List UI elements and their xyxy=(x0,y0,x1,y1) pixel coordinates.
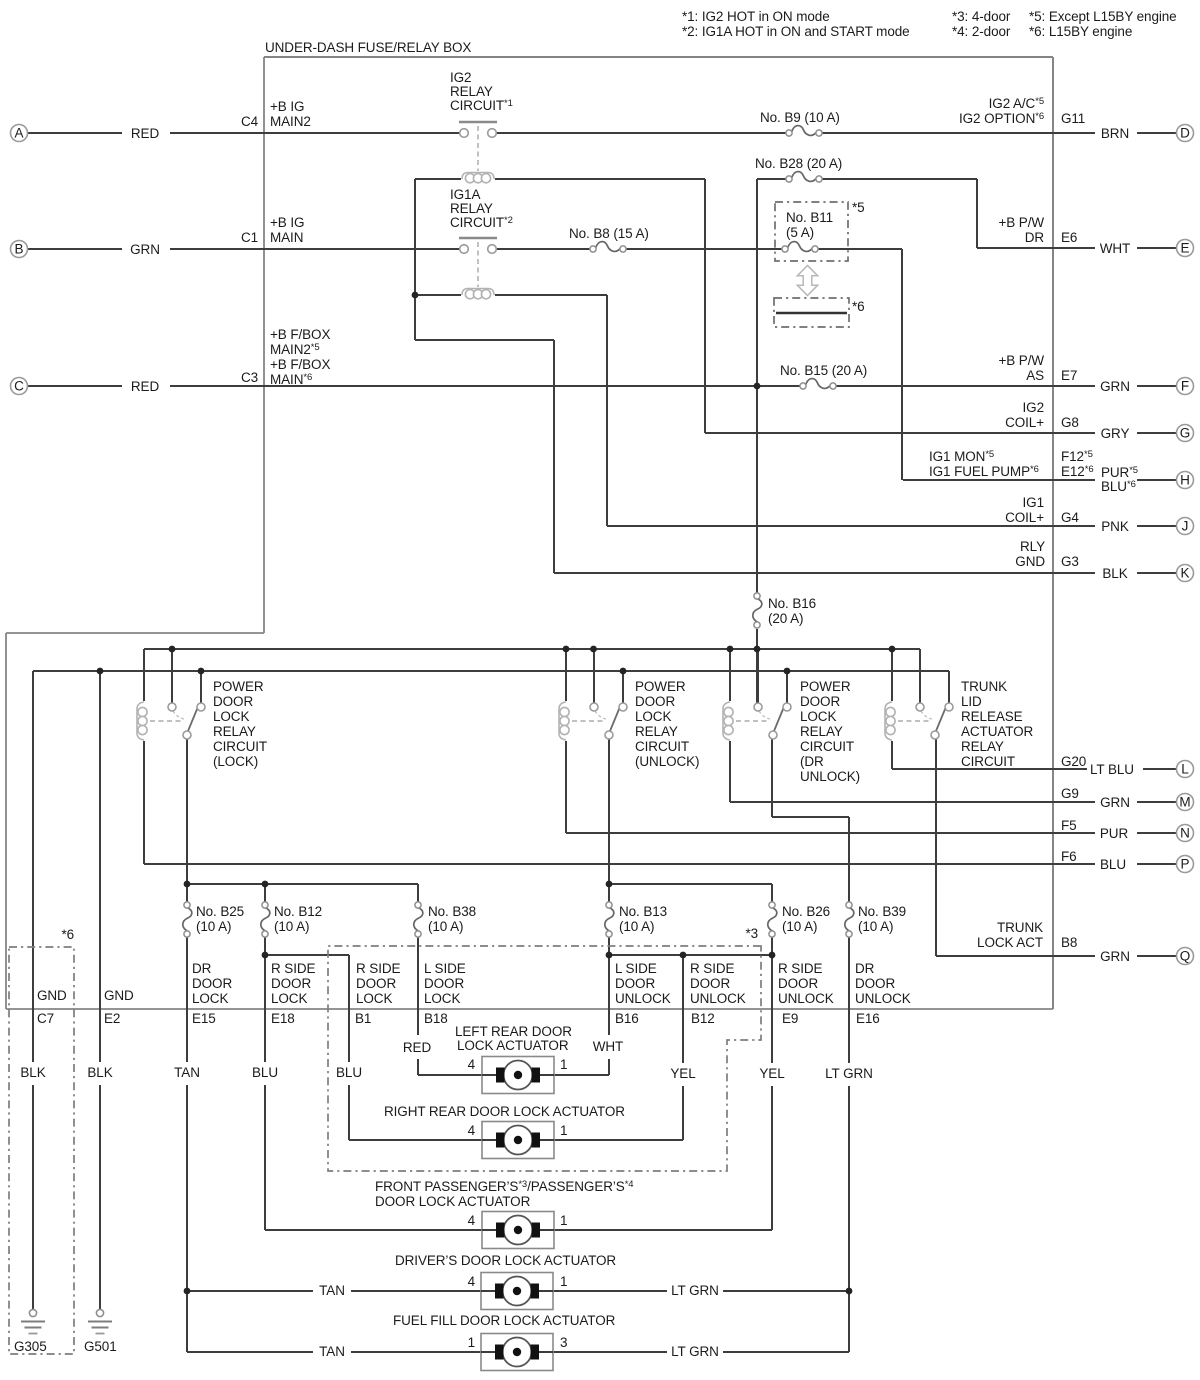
svg-text:DOOR: DOOR xyxy=(778,976,818,991)
svg-text:LT GRN: LT GRN xyxy=(671,1283,719,1298)
svg-text:LOCK: LOCK xyxy=(424,991,460,1006)
svg-text:UNLOCK: UNLOCK xyxy=(690,991,746,1006)
svg-text:LOCK: LOCK xyxy=(356,991,392,1006)
svg-text:1: 1 xyxy=(560,1057,567,1072)
svg-text:DOOR: DOOR xyxy=(271,976,311,991)
svg-text:+B P/W: +B P/W xyxy=(998,353,1044,368)
svg-text:LID: LID xyxy=(961,694,982,709)
svg-text:A: A xyxy=(15,126,24,141)
svg-text:(20 A): (20 A) xyxy=(768,611,803,626)
svg-text:LEFT REAR DOOR: LEFT REAR DOOR xyxy=(455,1024,572,1039)
svg-text:J: J xyxy=(1182,519,1189,534)
svg-text:E18: E18 xyxy=(271,1011,295,1026)
svg-text:E7: E7 xyxy=(1061,368,1077,383)
svg-text:UNLOCK: UNLOCK xyxy=(615,991,671,1006)
svg-text:*5: *5 xyxy=(852,200,865,215)
svg-text:C3: C3 xyxy=(241,370,258,385)
svg-text:ACTUATOR: ACTUATOR xyxy=(961,724,1034,739)
svg-text:RELAY: RELAY xyxy=(450,201,493,216)
svg-text:DR: DR xyxy=(1025,230,1045,245)
svg-text:N: N xyxy=(1180,826,1190,841)
svg-text:IG1 FUEL PUMP*6: IG1 FUEL PUMP*6 xyxy=(929,464,1039,479)
svg-text:No. B9 (10 A): No. B9 (10 A) xyxy=(760,110,840,125)
svg-text:IG1 MON*5: IG1 MON*5 xyxy=(929,449,994,464)
svg-text:CIRCUIT: CIRCUIT xyxy=(213,739,267,754)
svg-text:F: F xyxy=(1181,379,1189,394)
svg-text:GND: GND xyxy=(1015,554,1045,569)
svg-text:UNLOCK: UNLOCK xyxy=(855,991,911,1006)
svg-text:*3: 4-door: *3: 4-door xyxy=(952,9,1011,24)
svg-text:RED: RED xyxy=(403,1040,432,1055)
svg-text:4: 4 xyxy=(468,1057,476,1072)
svg-text:E: E xyxy=(1181,241,1190,256)
svg-text:No. B11: No. B11 xyxy=(786,210,833,225)
svg-text:F5: F5 xyxy=(1061,818,1077,833)
svg-text:G9: G9 xyxy=(1061,786,1079,801)
svg-text:RELAY: RELAY xyxy=(450,84,493,99)
svg-text:IG2: IG2 xyxy=(450,70,471,85)
svg-text:UNDER-DASH FUSE/RELAY BOX: UNDER-DASH FUSE/RELAY BOX xyxy=(265,40,471,55)
svg-text:GRY: GRY xyxy=(1101,426,1130,441)
svg-text:E6: E6 xyxy=(1061,230,1077,245)
svg-text:DOOR: DOOR xyxy=(800,694,840,709)
svg-text:TRUNK: TRUNK xyxy=(961,679,1007,694)
svg-text:No. B39: No. B39 xyxy=(858,904,906,919)
svg-text:PUR: PUR xyxy=(1100,826,1129,841)
svg-text:IG1A: IG1A xyxy=(450,187,480,202)
svg-text:*6: L15BY engine: *6: L15BY engine xyxy=(1029,24,1132,39)
svg-text:G20: G20 xyxy=(1061,754,1086,769)
svg-text:L: L xyxy=(1181,762,1189,777)
svg-text:GRN: GRN xyxy=(1100,949,1130,964)
svg-text:Q: Q xyxy=(1180,949,1190,964)
svg-text:(LOCK): (LOCK) xyxy=(213,754,258,769)
svg-text:DOOR: DOOR xyxy=(855,976,895,991)
svg-text:+B IG: +B IG xyxy=(270,215,304,230)
svg-text:BLU: BLU xyxy=(336,1065,362,1080)
svg-text:G501: G501 xyxy=(84,1339,117,1354)
svg-text:+B F/BOX: +B F/BOX xyxy=(270,327,330,342)
svg-text:UNLOCK: UNLOCK xyxy=(778,991,834,1006)
svg-text:CIRCUIT: CIRCUIT xyxy=(800,739,854,754)
svg-text:(10 A): (10 A) xyxy=(619,919,654,934)
svg-text:E2: E2 xyxy=(104,1011,120,1026)
svg-text:MAIN2: MAIN2 xyxy=(270,114,311,129)
svg-text:FUEL FILL DOOR LOCK ACTUATOR: FUEL FILL DOOR LOCK ACTUATOR xyxy=(393,1313,616,1328)
svg-text:D: D xyxy=(1180,126,1190,141)
svg-text:No. B15 (20 A): No. B15 (20 A) xyxy=(780,363,867,378)
svg-text:RIGHT REAR DOOR LOCK ACTUATOR: RIGHT REAR DOOR LOCK ACTUATOR xyxy=(384,1104,625,1119)
svg-text:DRIVER’S DOOR LOCK ACTUATOR: DRIVER’S DOOR LOCK ACTUATOR xyxy=(395,1253,616,1268)
svg-text:1: 1 xyxy=(560,1274,567,1289)
svg-text:(10 A): (10 A) xyxy=(196,919,231,934)
svg-text:G4: G4 xyxy=(1061,510,1079,525)
svg-text:GRN: GRN xyxy=(1100,795,1130,810)
svg-text:BLU: BLU xyxy=(252,1065,278,1080)
svg-text:DR: DR xyxy=(192,961,212,976)
svg-text:B8: B8 xyxy=(1061,935,1077,950)
svg-text:LT GRN: LT GRN xyxy=(671,1344,719,1359)
svg-text:UNLOCK): UNLOCK) xyxy=(800,769,860,784)
svg-text:DOOR LOCK ACTUATOR: DOOR LOCK ACTUATOR xyxy=(375,1194,531,1209)
svg-text:G: G xyxy=(1180,426,1190,441)
svg-text:DOOR: DOOR xyxy=(635,694,675,709)
svg-text:PUR*5: PUR*5 xyxy=(1101,465,1138,480)
svg-text:*5: Except L15BY engine: *5: Except L15BY engine xyxy=(1029,9,1177,24)
svg-text:IG2 OPTION*6: IG2 OPTION*6 xyxy=(959,111,1044,126)
svg-text:(5 A): (5 A) xyxy=(786,225,814,240)
svg-text:4: 4 xyxy=(468,1123,476,1138)
svg-text:G11: G11 xyxy=(1061,111,1085,126)
svg-text:No. B28 (20 A): No. B28 (20 A) xyxy=(755,156,842,171)
svg-text:3: 3 xyxy=(560,1335,567,1350)
svg-text:COIL+: COIL+ xyxy=(1005,415,1044,430)
svg-text:C1: C1 xyxy=(241,230,258,245)
svg-text:G3: G3 xyxy=(1061,554,1079,569)
svg-text:BLK: BLK xyxy=(20,1065,45,1080)
svg-text:4: 4 xyxy=(468,1213,476,1228)
svg-text:(UNLOCK): (UNLOCK) xyxy=(635,754,699,769)
svg-text:YEL: YEL xyxy=(759,1066,785,1081)
svg-text:B: B xyxy=(15,242,24,257)
svg-text:MAIN2*5: MAIN2*5 xyxy=(270,342,320,357)
svg-text:No. B12: No. B12 xyxy=(274,904,322,919)
svg-text:YEL: YEL xyxy=(670,1066,696,1081)
svg-text:DR: DR xyxy=(855,961,875,976)
svg-text:RELEASE: RELEASE xyxy=(961,709,1023,724)
svg-text:No. B38: No. B38 xyxy=(428,904,476,919)
svg-text:BLK: BLK xyxy=(87,1065,112,1080)
svg-text:E9: E9 xyxy=(782,1011,798,1026)
svg-text:IG1: IG1 xyxy=(1023,495,1044,510)
svg-text:COIL+: COIL+ xyxy=(1005,510,1044,525)
svg-text:No. B13: No. B13 xyxy=(619,904,667,919)
svg-text:LOCK: LOCK xyxy=(635,709,671,724)
svg-text:C4: C4 xyxy=(241,114,259,129)
svg-text:RELAY: RELAY xyxy=(800,724,843,739)
svg-text:(10 A): (10 A) xyxy=(858,919,893,934)
svg-text:BRN: BRN xyxy=(1101,126,1129,141)
svg-text:MAIN: MAIN xyxy=(270,230,303,245)
svg-text:LOCK: LOCK xyxy=(213,709,249,724)
svg-text:BLU: BLU xyxy=(1100,857,1126,872)
svg-text:LT BLU: LT BLU xyxy=(1090,762,1134,777)
svg-text:L SIDE: L SIDE xyxy=(615,961,657,976)
svg-text:No. B8 (15 A): No. B8 (15 A) xyxy=(569,226,649,241)
svg-text:No. B16: No. B16 xyxy=(768,596,816,611)
svg-text:*4: 2-door: *4: 2-door xyxy=(952,24,1011,39)
svg-text:POWER: POWER xyxy=(635,679,686,694)
svg-text:R SIDE: R SIDE xyxy=(778,961,823,976)
svg-text:No. B26: No. B26 xyxy=(782,904,830,919)
svg-text:+B IG: +B IG xyxy=(270,99,304,114)
svg-text:*3: *3 xyxy=(745,926,758,941)
svg-text:DOOR: DOOR xyxy=(356,976,396,991)
svg-text:AS: AS xyxy=(1026,368,1044,383)
svg-text:+B P/W: +B P/W xyxy=(998,215,1044,230)
svg-text:GND: GND xyxy=(37,988,67,1003)
svg-text:RED: RED xyxy=(131,379,160,394)
svg-text:POWER: POWER xyxy=(213,679,264,694)
svg-text:1: 1 xyxy=(468,1335,475,1350)
svg-text:LOCK ACT: LOCK ACT xyxy=(977,935,1043,950)
svg-text:E12*6: E12*6 xyxy=(1061,464,1094,479)
svg-text:CIRCUIT: CIRCUIT xyxy=(635,739,689,754)
svg-text:B1: B1 xyxy=(355,1011,371,1026)
svg-text:No. B25: No. B25 xyxy=(196,904,244,919)
svg-text:MAIN*6: MAIN*6 xyxy=(270,372,312,387)
svg-text:4: 4 xyxy=(468,1274,476,1289)
svg-text:LOCK ACTUATOR: LOCK ACTUATOR xyxy=(457,1038,569,1053)
svg-text:G8: G8 xyxy=(1061,415,1079,430)
svg-text:FRONT PASSENGER’S*3/PASSENGER’: FRONT PASSENGER’S*3/PASSENGER’S*4 xyxy=(375,1179,633,1194)
svg-text:RELAY: RELAY xyxy=(961,739,1004,754)
svg-text:R SIDE: R SIDE xyxy=(356,961,401,976)
svg-text:BLK: BLK xyxy=(1102,566,1127,581)
svg-text:LOCK: LOCK xyxy=(800,709,836,724)
svg-text:IG2 A/C*5: IG2 A/C*5 xyxy=(989,96,1044,111)
svg-text:LT GRN: LT GRN xyxy=(825,1066,873,1081)
svg-text:DOOR: DOOR xyxy=(690,976,730,991)
svg-text:GRN: GRN xyxy=(1100,379,1130,394)
svg-text:DOOR: DOOR xyxy=(192,976,232,991)
svg-text:B16: B16 xyxy=(615,1011,639,1026)
svg-text:B18: B18 xyxy=(424,1011,448,1026)
svg-text:G305: G305 xyxy=(14,1339,47,1354)
svg-text:RELAY: RELAY xyxy=(635,724,678,739)
svg-text:(10 A): (10 A) xyxy=(274,919,309,934)
svg-text:CIRCUIT*1: CIRCUIT*1 xyxy=(450,98,513,113)
svg-text:WHT: WHT xyxy=(593,1039,623,1054)
svg-text:+B F/BOX: +B F/BOX xyxy=(270,357,330,372)
svg-text:TAN: TAN xyxy=(174,1065,200,1080)
svg-text:PNK: PNK xyxy=(1101,519,1129,534)
svg-text:DOOR: DOOR xyxy=(615,976,655,991)
svg-text:DOOR: DOOR xyxy=(424,976,464,991)
svg-text:(DR: (DR xyxy=(800,754,824,769)
svg-text:C: C xyxy=(14,379,24,394)
svg-text:F12*5: F12*5 xyxy=(1061,449,1093,464)
svg-text:(10 A): (10 A) xyxy=(782,919,817,934)
svg-text:*2: IG1A HOT in ON and START m: *2: IG1A HOT in ON and START mode xyxy=(682,24,910,39)
svg-text:RLY: RLY xyxy=(1020,539,1045,554)
svg-text:K: K xyxy=(1181,566,1190,581)
svg-text:CIRCUIT*2: CIRCUIT*2 xyxy=(450,215,513,230)
svg-text:1: 1 xyxy=(560,1123,567,1138)
svg-text:WHT: WHT xyxy=(1100,241,1130,256)
svg-text:RED: RED xyxy=(131,126,160,141)
svg-text:R SIDE: R SIDE xyxy=(271,961,316,976)
svg-text:H: H xyxy=(1180,473,1190,488)
svg-text:GND: GND xyxy=(104,988,134,1003)
svg-text:LOCK: LOCK xyxy=(192,991,228,1006)
svg-text:BLU*6: BLU*6 xyxy=(1101,479,1136,494)
svg-text:TAN: TAN xyxy=(319,1344,345,1359)
svg-text:1: 1 xyxy=(560,1213,567,1228)
svg-text:L SIDE: L SIDE xyxy=(424,961,466,976)
svg-text:*1: IG2 HOT in ON mode: *1: IG2 HOT in ON mode xyxy=(682,9,830,24)
svg-text:DOOR: DOOR xyxy=(213,694,253,709)
svg-text:E16: E16 xyxy=(856,1011,880,1026)
svg-text:F6: F6 xyxy=(1061,849,1077,864)
svg-text:IG2: IG2 xyxy=(1023,400,1044,415)
svg-text:R SIDE: R SIDE xyxy=(690,961,735,976)
svg-text:GRN: GRN xyxy=(130,242,160,257)
svg-text:POWER: POWER xyxy=(800,679,851,694)
svg-text:M: M xyxy=(1179,795,1190,810)
svg-text:RELAY: RELAY xyxy=(213,724,256,739)
svg-text:E15: E15 xyxy=(192,1011,216,1026)
svg-text:C7: C7 xyxy=(37,1011,54,1026)
svg-text:TAN: TAN xyxy=(319,1283,345,1298)
svg-text:B12: B12 xyxy=(691,1011,715,1026)
svg-text:*6: *6 xyxy=(852,299,865,314)
svg-text:TRUNK: TRUNK xyxy=(997,920,1043,935)
svg-text:LOCK: LOCK xyxy=(271,991,307,1006)
svg-text:CIRCUIT: CIRCUIT xyxy=(961,754,1015,769)
svg-text:(10 A): (10 A) xyxy=(428,919,463,934)
svg-text:P: P xyxy=(1181,857,1190,872)
svg-text:*6: *6 xyxy=(61,927,74,942)
